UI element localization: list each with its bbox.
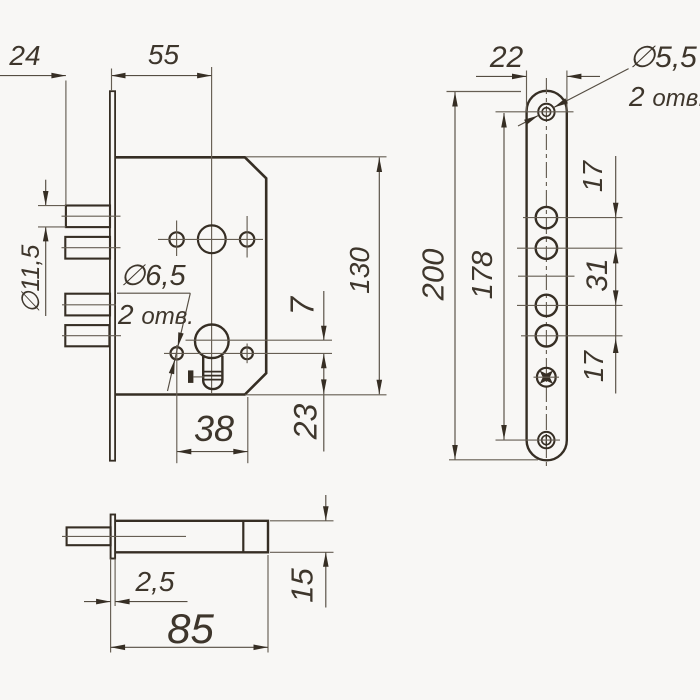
- latch hole 1: [536, 207, 557, 228]
- dimension 200: dim line: [454, 92, 456, 460]
- lock body outline with chamfered right corners: [115, 157, 266, 394]
- right dims column: dim line 17/31/17: [615, 156, 617, 394]
- faceplate extension line: [111, 69, 113, 92]
- dimension 200 up arrow: [452, 92, 458, 107]
- svg-text:22: 22: [489, 41, 524, 74]
- right hole vertical center line: [246, 216, 248, 258]
- stop pin center line: [193, 376, 204, 378]
- dimension 85 right arrow: [254, 645, 269, 651]
- spindle hub hole (large circle): [198, 225, 226, 253]
- fixing hole right of hub: [240, 232, 254, 246]
- latch bolt center line lower: [62, 247, 121, 249]
- right fixing hole vertical center line: [246, 344, 248, 364]
- svg-text:7: 7: [284, 295, 321, 315]
- bottom screw hole slot mark: [545, 434, 547, 446]
- latch bolt (top view): [67, 527, 111, 545]
- dimension 15: extension lines: [270, 520, 334, 522]
- svg-text:2,5: 2,5: [135, 566, 175, 597]
- dimension 130 down arrow: [377, 380, 383, 395]
- latch hole 1 center line: [523, 217, 623, 219]
- faceplate edge (front view, narrow strip): [110, 91, 115, 461]
- cylinder fixing hole right: [241, 347, 253, 359]
- leader line lower tail: [518, 116, 538, 127]
- pozidriv screw star (filled): [540, 371, 553, 384]
- leader arrow upper right: [554, 98, 568, 107]
- dimension 2,5: left tail and arrow: [84, 601, 111, 603]
- deadbolt hole 1 center line: [517, 304, 623, 306]
- deadbolt center line upper: [62, 304, 116, 306]
- svg-text:17: 17: [577, 160, 608, 193]
- leader arrow upper: [178, 332, 184, 347]
- dimension 22: extension lines above plate: [526, 71, 528, 112]
- dimension 24 arrow: [51, 73, 66, 79]
- deadbolt hole 1: [536, 295, 557, 316]
- bottom screw hole inner: [542, 436, 551, 445]
- label D6,5 2 otv: shelf: [117, 292, 190, 294]
- svg-text:24: 24: [8, 40, 40, 71]
- dimension 2,5: extension lines below faceplate: [110, 559, 112, 653]
- latch bolt center line (top view): [62, 535, 186, 537]
- svg-text:2 отв.: 2 отв.: [117, 299, 194, 330]
- shared up arrow (7 lower / 23 upper): [321, 354, 327, 369]
- dimension 85: right extension line: [267, 555, 269, 653]
- chamfer projection line: [242, 521, 244, 553]
- bottom screw hole center line: [496, 439, 561, 441]
- dim 17 bottom up arrow: [613, 339, 619, 354]
- dimension D11,5 extension lines: [38, 205, 66, 207]
- dimension 55 right arrow: [197, 73, 212, 79]
- svg-text:17: 17: [578, 350, 609, 383]
- svg-text:∅6,5: ∅6,5: [120, 260, 186, 292]
- dim 31 up arrow: [613, 249, 619, 264]
- svg-text:55: 55: [148, 39, 180, 70]
- dimension 85: dim line: [111, 646, 268, 648]
- svg-text:38: 38: [194, 408, 234, 449]
- body bottom extension line: [245, 394, 387, 396]
- fixing holes horizontal center line: [164, 352, 332, 354]
- dimension 2,5: right tail and arrow: [115, 601, 187, 603]
- dimension 130: dim line: [378, 158, 380, 395]
- euro cylinder bottom cap: [203, 381, 222, 390]
- plate bottom extension line: [449, 459, 538, 461]
- svg-text:2 отв.: 2 отв.: [628, 81, 700, 112]
- dimension 38: dim line: [177, 451, 248, 453]
- dimension 178 up arrow: [501, 113, 507, 128]
- pozidriv screw center line: [534, 376, 560, 378]
- dim 31 down arrow: [613, 290, 619, 305]
- deadbolt center line lower: [62, 335, 121, 337]
- dimension D11,5: lower arrow and tail: [45, 227, 47, 316]
- label D5,5 2 otv: leader line upper: [554, 69, 629, 108]
- latch bolt center line upper: [62, 215, 121, 217]
- dimension 85 left arrow: [111, 645, 126, 651]
- faceplate (top view): [111, 515, 116, 559]
- fixing hole left of hub: [169, 232, 183, 246]
- dim 17 top down arrow: [613, 203, 619, 218]
- pozidriv screw outer: [537, 368, 556, 387]
- deadbolt hole 2 center line: [521, 335, 623, 337]
- stop pin (filled): [188, 370, 193, 383]
- main vertical axis line: [211, 67, 213, 394]
- svg-text:130: 130: [344, 247, 375, 294]
- svg-text:15: 15: [285, 568, 320, 603]
- svg-text:∅5,5: ∅5,5: [629, 41, 697, 74]
- dimension 22: left tail and arrow: [476, 75, 527, 77]
- top screw hole center line: [496, 111, 574, 113]
- svg-text:23: 23: [288, 404, 324, 441]
- lock case bar (top view): [115, 521, 268, 553]
- euro cylinder stem cross lines: [203, 372, 222, 380]
- cylinder horizontal center line: [186, 339, 333, 341]
- dimension 24 extension line at bolt tip: [65, 81, 67, 206]
- cylinder fixing hole left: [171, 347, 183, 359]
- top screw hole outer: [538, 104, 554, 120]
- svg-text:200: 200: [416, 249, 451, 302]
- euro cylinder circle: [195, 325, 229, 359]
- plate top extension line: [447, 91, 522, 93]
- latch bolt upper half: [66, 206, 110, 228]
- dimension 200 down arrow: [452, 445, 458, 460]
- dimension 178 down arrow: [501, 425, 507, 440]
- svg-text:∅11,5: ∅11,5: [17, 245, 45, 314]
- deadbolt lower half: [65, 325, 109, 346]
- dimension 7: upper tail and arrow: [323, 291, 325, 340]
- latch hole 2: [536, 238, 557, 259]
- dimension 22: right tail and arrow: [567, 75, 600, 77]
- dimension 15: lower arrow and tail: [325, 552, 327, 607]
- dimension 23: dim line with tail: [323, 354, 325, 452]
- dimension 15: upper tail and arrow: [325, 495, 327, 521]
- top screw hole inner: [542, 108, 551, 117]
- dimension 38: left extension line: [176, 345, 178, 463]
- dimension 178: dim line: [503, 113, 505, 440]
- dimension 130 up arrow: [377, 158, 383, 173]
- hub row horizontal center line: [158, 238, 263, 240]
- deadbolt hole 2: [536, 325, 557, 346]
- dimension 23 down arrow: [321, 379, 327, 394]
- svg-text:178: 178: [467, 251, 499, 299]
- dimension 38 left arrow: [177, 449, 192, 455]
- svg-text:85: 85: [167, 605, 214, 652]
- latch bolt lower half: [65, 237, 110, 259]
- dimension 38 right arrow: [233, 449, 248, 455]
- dimension 55: dim line: [111, 75, 212, 77]
- deadbolt upper half: [65, 294, 110, 316]
- leader arrow lower: [169, 360, 175, 375]
- svg-text:31: 31: [581, 258, 614, 291]
- plate middle mark line: [518, 275, 575, 277]
- faceplate vertical center line (dash-dot): [545, 78, 547, 468]
- bottom screw hole outer: [538, 432, 554, 448]
- leader arrow lower left: [524, 116, 538, 125]
- body top extension line: [246, 156, 387, 158]
- dimension D11,5: upper tail and arrow: [45, 180, 47, 206]
- dimension 38: right extension line: [247, 397, 249, 463]
- dimension 55 left arrow: [111, 73, 126, 79]
- label leader line: [168, 293, 191, 391]
- dimension 24: dim line: [0, 75, 66, 77]
- euro cylinder stem: [203, 356, 222, 381]
- left hole vertical center line: [176, 221, 178, 257]
- faceplate outline (stadium shape): [527, 91, 567, 461]
- latch hole 2 center line: [517, 247, 623, 249]
